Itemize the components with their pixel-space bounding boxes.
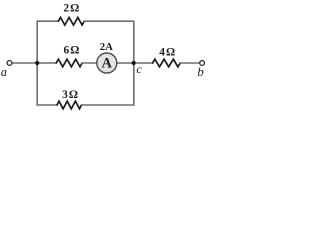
terminal b circle <box>200 61 205 66</box>
wire bottom left <box>37 104 57 106</box>
svg-text:6Ω: 6Ω <box>63 45 79 57</box>
ammeter A1 circle <box>97 53 117 73</box>
wire middle to 6ohm <box>37 62 56 64</box>
junction dot left node <box>35 61 39 65</box>
resistor R-mid 6ohm <box>56 59 82 67</box>
svg-text:3Ω: 3Ω <box>62 89 78 101</box>
wire left vertical <box>36 21 38 105</box>
wire top right <box>84 20 134 22</box>
wire terminal a to node <box>12 62 37 64</box>
terminal a circle <box>7 61 12 66</box>
wire bottom right <box>82 104 134 106</box>
svg-text:4Ω: 4Ω <box>159 47 175 59</box>
resistor R-bottom 3ohm <box>57 101 82 109</box>
resistor R-top 2ohm <box>58 17 84 25</box>
wire 6ohm to ammeter <box>82 62 97 64</box>
svg-text:2A: 2A <box>100 41 113 53</box>
wire ammeter to node c <box>117 62 134 64</box>
svg-text:b: b <box>197 65 204 79</box>
wire right vertical <box>133 21 135 105</box>
svg-text:A: A <box>102 55 113 71</box>
wire 4ohm to terminal b <box>180 62 200 64</box>
svg-text:2Ω: 2Ω <box>63 3 79 15</box>
svg-text:a: a <box>1 65 7 79</box>
junction dot node c <box>132 61 136 65</box>
svg-text:c: c <box>136 62 142 76</box>
wire top branch <box>37 20 58 22</box>
resistor R-right 4ohm <box>153 59 181 67</box>
wire node c to 4ohm <box>134 62 153 64</box>
